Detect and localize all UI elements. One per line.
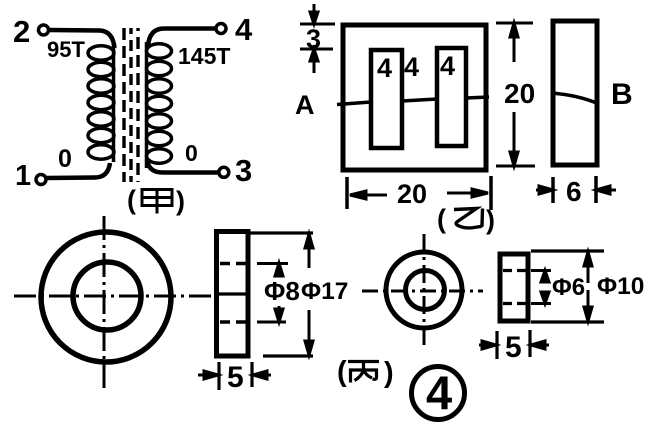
dim 5 small arrows — [479, 341, 549, 349]
terminal 1 circle — [36, 175, 46, 185]
wire bottom-right lead — [148, 161, 219, 173]
svg-text:B: B — [611, 78, 633, 111]
extension phi8 top — [257, 262, 288, 265]
figure number circled 4 — [412, 366, 465, 420]
wire top-right lead — [148, 29, 215, 47]
svg-text:Φ6: Φ6 — [552, 274, 585, 301]
winding secondary 145T loops — [147, 42, 172, 168]
svg-text:(: ( — [337, 356, 347, 388]
small toroid inner circle — [406, 271, 445, 310]
B piece outline — [553, 21, 597, 165]
svg-text:4: 4 — [377, 53, 392, 83]
dim 6 ticks — [553, 176, 596, 203]
terminal 3 circle — [219, 167, 229, 177]
hidden hole line top — [220, 262, 247, 266]
svg-text:(: ( — [127, 185, 136, 215]
svg-text:95T: 95T — [47, 37, 85, 62]
small extension top — [531, 249, 604, 252]
hidden hole line bottom — [220, 320, 247, 324]
extension line top — [249, 231, 313, 234]
window right — [437, 48, 466, 146]
window left — [371, 50, 402, 148]
svg-text:): ) — [176, 186, 185, 216]
label (乙) — [437, 204, 495, 235]
centerline vertical small — [423, 234, 426, 347]
svg-text:5: 5 — [505, 331, 522, 364]
small toroid outer circle — [386, 252, 462, 328]
joint line segments — [337, 97, 489, 105]
core outline square — [343, 25, 486, 170]
label (甲) — [127, 185, 185, 216]
svg-text:4: 4 — [440, 51, 455, 81]
dim 20 bottom ticks — [347, 176, 491, 210]
svg-text:4: 4 — [404, 52, 419, 82]
winding primary 95T loops — [88, 44, 114, 162]
B piece joint curve — [551, 93, 599, 104]
terminal 2 circle — [39, 25, 49, 35]
dim 5 small ticks — [497, 330, 530, 359]
svg-text:5: 5 — [227, 361, 244, 394]
extension line bottom — [263, 354, 313, 357]
toroid outer circle — [41, 232, 171, 362]
wire bottom-left lead — [47, 163, 111, 178]
centerline horizontal small — [362, 290, 483, 293]
svg-text:Φ10: Φ10 — [597, 273, 644, 300]
small extension bottom — [531, 320, 604, 323]
dim 5 large arrows — [198, 371, 271, 379]
svg-text:4: 4 — [235, 12, 253, 47]
side rect — [217, 232, 249, 357]
small hidden hole line bottom — [503, 302, 526, 305]
dim phi8 arrows — [275, 263, 283, 322]
svg-text:Φ17: Φ17 — [301, 278, 348, 305]
centerline horizontal — [14, 295, 213, 298]
svg-text:): ) — [384, 357, 394, 389]
dim 20 bottom arrows — [350, 189, 488, 199]
dim 20 vertical — [496, 23, 535, 166]
centerline vertical — [103, 216, 106, 390]
small side rect — [500, 254, 528, 321]
svg-text:6: 6 — [566, 176, 582, 207]
terminal 4 circle — [216, 24, 226, 34]
svg-text:2: 2 — [13, 14, 30, 49]
core laminations dashed — [124, 28, 138, 182]
dim phi10 arrows — [584, 252, 592, 321]
svg-text:1: 1 — [15, 160, 31, 192]
svg-text:0: 0 — [58, 145, 72, 173]
phi6 tick top — [531, 269, 551, 272]
svg-text:20: 20 — [504, 78, 535, 109]
svg-text:3: 3 — [235, 153, 252, 188]
dim phi6 arrows — [541, 271, 549, 304]
dim 5 large ticks — [219, 362, 252, 390]
svg-text:145T: 145T — [178, 43, 230, 69]
toroid inner circle — [73, 262, 141, 330]
svg-text:0: 0 — [185, 140, 198, 166]
extension phi8 bottom — [257, 321, 286, 324]
svg-text:A: A — [295, 90, 315, 120]
label (丙) — [337, 356, 394, 389]
phi6 tick bottom — [531, 302, 551, 305]
wire top-left lead — [49, 30, 115, 48]
dim phi17 arrows — [305, 234, 313, 355]
dim 6 arrows — [536, 186, 616, 194]
small hidden hole line top — [503, 269, 526, 272]
centerline through rect — [218, 292, 247, 295]
svg-text:20: 20 — [397, 179, 427, 209]
dim 3 extension bars — [300, 24, 335, 49]
svg-text:(: ( — [437, 204, 446, 234]
dim 3 arrows — [310, 4, 318, 73]
svg-text:3: 3 — [306, 24, 321, 54]
svg-text:): ) — [486, 205, 495, 235]
svg-text:4: 4 — [426, 366, 452, 419]
svg-text:Φ8: Φ8 — [264, 276, 300, 306]
